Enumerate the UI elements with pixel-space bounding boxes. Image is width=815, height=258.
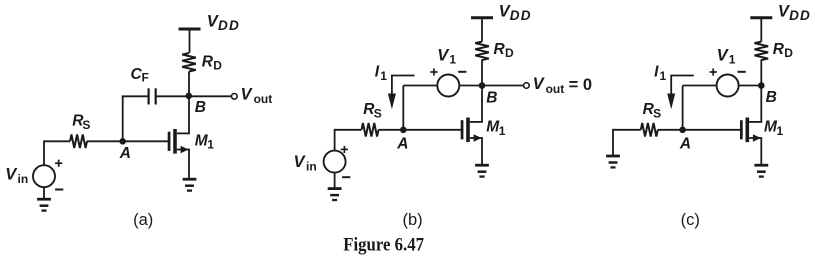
svg-text:F: F [142,71,149,85]
svg-text:A: A [679,136,691,153]
svg-text:D: D [213,58,222,72]
svg-text:1: 1 [729,52,736,66]
svg-text:DD: DD [218,18,240,33]
svg-text:B: B [486,90,497,107]
svg-text:A: A [119,145,131,162]
svg-text:DD: DD [789,8,811,23]
svg-text:S: S [82,118,90,132]
svg-text:A: A [396,136,408,153]
svg-text:I: I [375,64,380,81]
svg-text:DD: DD [510,8,532,23]
svg-text:(c): (c) [681,211,700,229]
svg-text:1: 1 [777,124,784,138]
svg-text:in: in [306,160,317,174]
svg-text:R: R [202,54,214,71]
svg-text:out: out [546,82,565,96]
svg-text:Figure 6.47: Figure 6.47 [343,235,424,255]
svg-text:D: D [784,46,793,60]
svg-text:R: R [773,41,785,58]
svg-text:in: in [18,172,29,186]
svg-text:B: B [766,89,777,106]
svg-text:1: 1 [660,69,667,83]
svg-text:(b): (b) [403,211,423,229]
svg-text:D: D [505,46,514,60]
svg-text:= 0: = 0 [569,76,592,94]
svg-text:S: S [374,106,382,120]
svg-text:B: B [195,99,206,116]
svg-text:1: 1 [499,124,506,138]
svg-text:1: 1 [449,52,456,66]
svg-text:1: 1 [380,69,387,83]
svg-text:(a): (a) [133,211,153,229]
svg-text:S: S [653,106,661,120]
svg-text:R: R [494,41,506,58]
svg-text:1: 1 [207,138,214,152]
svg-text:out: out [254,92,273,106]
svg-text:I: I [654,64,659,81]
